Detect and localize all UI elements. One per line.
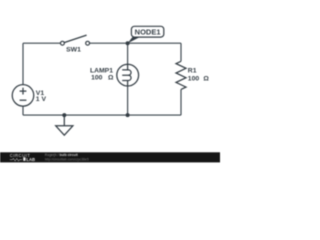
wire top segment (NODE1 junction to right corner) [128,42,181,44]
svg-text:100 Ω: 100 Ω [91,75,114,82]
wire LAMP1 top lead [127,43,129,64]
footer logo CIRCUIT LAB [10,153,35,162]
wire top segment (SW1 right terminal to NODE1 junction) [90,42,128,44]
node NODE1 label [128,26,164,43]
switch SW1 [61,35,90,53]
svg-text:1 V: 1 V [36,96,47,103]
voltage source V1 [12,85,34,107]
lamp LAMP1 [117,64,139,86]
footer bar [0,152,220,162]
wire right vertical (R1 bottom to bottom wire) [180,89,182,115]
svg-text:100 Ω: 100 Ω [188,75,210,82]
svg-text:R1: R1 [188,68,197,75]
svg-text:http://circuitlab.com/c/pc38e5: http://circuitlab.com/c/pc38e5 [45,157,89,161]
junction dot (ground) [62,113,66,117]
svg-text:SW1: SW1 [66,47,81,54]
ground [56,115,73,135]
wire V1 bottom lead [22,106,24,115]
junction dot (lamp to bottom wire) [126,113,130,117]
svg-text:LAB: LAB [26,157,35,162]
svg-text:NODE1: NODE1 [135,27,161,36]
junction dot at NODE1 [126,41,130,45]
wire bottom horizontal [23,114,181,116]
wire right vertical (corner to R1 top) [180,43,182,61]
svg-text:LAMP1: LAMP1 [90,68,113,75]
resistor R1 [176,61,186,89]
wire left vertical (top corner to V1 top) [22,43,24,84]
wire top segment (corner to SW1 left terminal) [23,42,61,44]
wire LAMP1 bottom lead [127,86,129,115]
